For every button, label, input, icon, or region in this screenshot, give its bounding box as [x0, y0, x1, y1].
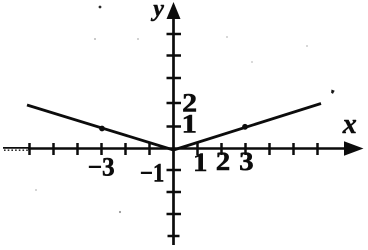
- graph line left branch y=|x|/3: [27, 105, 174, 150]
- x-axis tick marks: [30, 143, 318, 155]
- svg-text:3: 3: [239, 147, 254, 176]
- svg-text:1: 1: [182, 109, 198, 138]
- graph line right branch: [174, 104, 322, 151]
- speck top: [99, 6, 102, 9]
- x-axis: [3, 141, 364, 155]
- y-axis tick marks: [167, 34, 182, 236]
- svg-text:−1: −1: [140, 159, 165, 188]
- svg-text:x: x: [342, 109, 357, 140]
- speck near line end: [331, 90, 335, 94]
- svg-text:1: 1: [193, 148, 208, 177]
- point (-3,1): [99, 126, 105, 132]
- faint specks: [94, 38, 96, 40]
- svg-text:−3: −3: [88, 152, 115, 181]
- point (3,1): [242, 124, 248, 130]
- svg-text:y: y: [150, 0, 164, 22]
- vertex blob at origin: [167, 147, 180, 151]
- svg-text:2: 2: [216, 147, 231, 176]
- y-axis: [167, 2, 181, 245]
